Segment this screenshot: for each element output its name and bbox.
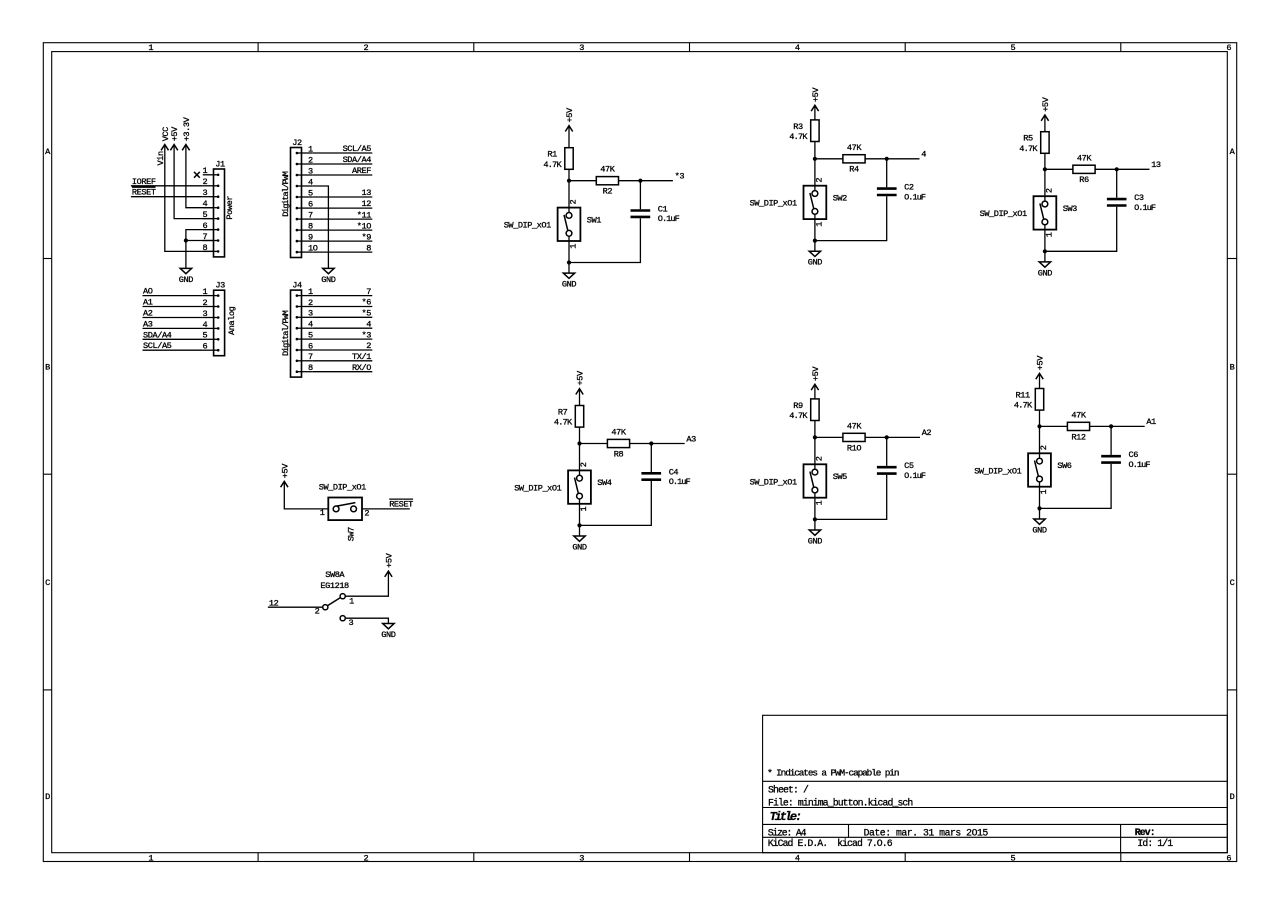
switch SW5 SW_DIP_x01 (750, 456, 848, 505)
svg-text:+5V: +5V (811, 366, 821, 381)
wire +5V to R9 (814, 384, 816, 399)
svg-text:SW_DIP_xO1: SW_DIP_xO1 (750, 477, 797, 487)
svg-text:SW2: SW2 (833, 194, 847, 204)
svg-text:KiCad E.D.A. kicad 7.O.6: KiCad E.D.A. kicad 7.O.6 (768, 838, 893, 849)
svg-text:A1: A1 (1146, 417, 1156, 427)
ground GND (SW2 circuit) (814, 241, 816, 252)
wire J1 pin 7 to ground rail (186, 240, 214, 242)
wire J4 pin 8 net (312, 371, 372, 373)
svg-text:C4: C4 (669, 467, 679, 477)
wire node to R12 (1040, 425, 1068, 427)
svg-text:SW_DIP_xO1: SW_DIP_xO1 (750, 199, 797, 209)
wire node to R2 (569, 180, 596, 182)
ground GND (J2) (321, 268, 335, 285)
wire node to C6 (1110, 426, 1112, 455)
junction ground node (SW4) (577, 523, 581, 527)
svg-text:2: 2 (364, 853, 369, 863)
wire J4 pin 7 net (312, 360, 372, 362)
wire C4 to ground node (580, 481, 652, 525)
resistor R12 47K (1067, 410, 1089, 442)
svg-text:GND: GND (1038, 268, 1052, 278)
svg-text:7: 7 (366, 287, 371, 297)
connector J2 (Digital/PWM) (281, 138, 318, 258)
wire J3 pin 5 net (143, 338, 203, 340)
svg-text:2: 2 (366, 341, 371, 351)
wire R8 to node (630, 443, 652, 445)
svg-text:SW8A: SW8A (325, 570, 345, 580)
junction C6 top node (1109, 424, 1113, 428)
svg-text:R8: R8 (614, 449, 624, 459)
svg-text:GND: GND (179, 275, 193, 285)
svg-text:RX/O: RX/O (352, 363, 371, 373)
wire J2 pin 7 net (312, 218, 372, 220)
svg-text:47K: 47K (847, 421, 862, 431)
wire R11 to SW6 pin 2 (1039, 410, 1041, 458)
svg-text:GND: GND (808, 537, 822, 547)
svg-text:3: 3 (349, 618, 354, 628)
svg-text:Size: A4: Size: A4 (768, 827, 807, 838)
svg-text:O.1uF: O.1uF (1134, 203, 1156, 213)
svg-text:R6: R6 (1079, 175, 1089, 185)
switch SW8A EG1218 (315, 570, 354, 628)
junction R3/R4 node (813, 157, 817, 161)
wire J2 pin 8 net (312, 229, 372, 231)
svg-text:2: 2 (1045, 188, 1055, 193)
svg-text:13: 13 (1151, 160, 1161, 170)
wire J2 pin 5 net (312, 196, 372, 198)
svg-text:1: 1 (569, 244, 579, 249)
wire C3 to ground node (1045, 207, 1117, 252)
wire node to net 4 (887, 158, 920, 160)
svg-text:SW_DIP_xO1: SW_DIP_xO1 (504, 221, 551, 231)
wire node to C3 (1116, 169, 1118, 198)
svg-text:4: 4 (203, 320, 208, 330)
wire J2 pin 10 net (312, 251, 372, 253)
switch SW2 SW_DIP_x01 (750, 178, 848, 227)
svg-text:1: 1 (1045, 232, 1055, 237)
svg-text:13: 13 (362, 188, 372, 198)
resistor R9 4.7K (789, 399, 819, 421)
power symbol +5V (SW3 circuit) (1041, 96, 1051, 120)
svg-text:SDA/A4: SDA/A4 (343, 155, 372, 165)
wire node to C4 (650, 444, 652, 473)
svg-text:Title:: Title: (770, 810, 802, 824)
wire R12 to node (1090, 425, 1112, 427)
svg-text:*9: *9 (362, 232, 372, 242)
svg-text:Power: Power (225, 196, 235, 220)
svg-text:*1O: *1O (357, 221, 371, 231)
junction R9/R10 node (813, 435, 817, 439)
svg-text:2: 2 (579, 462, 589, 467)
wire J4 pin 6 net (312, 349, 372, 351)
svg-text:2: 2 (315, 607, 320, 617)
wire node to R4 (815, 158, 843, 160)
wire R2 to node (619, 180, 641, 182)
svg-text:47K: 47K (1071, 410, 1086, 420)
power symbol +5V (SW7 circuit) (280, 463, 290, 487)
resistor R4 47K (843, 143, 865, 175)
svg-text:1: 1 (815, 222, 825, 227)
svg-text:*3: *3 (362, 330, 372, 340)
svg-text:2: 2 (815, 178, 825, 183)
svg-text:47K: 47K (600, 165, 615, 175)
svg-text:+5V: +5V (280, 463, 290, 478)
svg-text:R4: R4 (849, 165, 859, 175)
wire J3 pin 1 net (143, 295, 203, 297)
svg-text:R9: R9 (793, 401, 803, 411)
wire R7 to SW4 pin 2 (579, 427, 581, 475)
svg-text:A2: A2 (922, 428, 932, 438)
wire J1 pin 6 to ground rail (186, 230, 214, 269)
svg-text:SW1: SW1 (587, 215, 601, 225)
wire R1 to SW1 pin 2 (568, 169, 570, 212)
junction ground node (SW1) (567, 260, 571, 264)
junction R5/R6 node (1043, 167, 1047, 171)
ground GND (SW6 circuit) (1039, 508, 1041, 519)
wire J2 pin 6 net (312, 207, 372, 209)
junction ground node (SW6) (1037, 506, 1041, 510)
wire SW1 pin 1 to ground node (568, 236, 570, 262)
svg-text:GND: GND (321, 275, 335, 285)
wire J2 pin 1 net (312, 152, 372, 154)
junction C5 top node (885, 435, 889, 439)
capacitor C1 0.1uF (631, 205, 680, 225)
power symbol +5V (SW8A) (384, 552, 394, 576)
ground GND (SW1 circuit) (568, 263, 570, 274)
svg-text:+5V: +5V (1036, 355, 1046, 370)
wire J4 pin 1 net (312, 295, 372, 297)
svg-text:D: D (1230, 792, 1235, 802)
wire node to C2 (886, 159, 888, 188)
junction ground node (SW3) (1043, 249, 1047, 253)
resistor R10 47K (843, 421, 865, 453)
wire R3 to SW2 pin 2 (814, 142, 816, 191)
svg-text:J3: J3 (215, 281, 225, 291)
svg-text:Digital/PWM: Digital/PWM (281, 310, 291, 356)
svg-text:SW_DIP_xO1: SW_DIP_xO1 (980, 209, 1027, 219)
svg-text:B: B (45, 362, 50, 372)
svg-text:4.7K: 4.7K (554, 418, 573, 428)
svg-text:2: 2 (203, 298, 208, 308)
svg-text:A3: A3 (143, 319, 153, 329)
svg-text:3: 3 (203, 309, 208, 319)
svg-text:J2: J2 (292, 138, 302, 148)
junction C1 top node (638, 179, 642, 183)
svg-text:R1: R1 (547, 150, 557, 160)
svg-text:C1: C1 (658, 205, 668, 215)
svg-text:47K: 47K (847, 143, 862, 153)
svg-text:4.7K: 4.7K (543, 160, 562, 170)
wire net 12 to SW8A pin 2 (268, 606, 323, 608)
wire +3.3V to J1 pin 4 (186, 145, 214, 208)
svg-text:Analog: Analog (227, 306, 237, 335)
svg-text:J4: J4 (292, 281, 302, 291)
wire R9 to SW5 pin 2 (814, 421, 816, 470)
svg-text:4.7K: 4.7K (789, 132, 808, 142)
no-connect X on J1 pin 1 (194, 172, 200, 178)
svg-text:1: 1 (148, 853, 153, 863)
svg-text:R2: R2 (603, 187, 613, 197)
svg-text:1: 1 (203, 287, 208, 297)
svg-text:5: 5 (203, 331, 208, 341)
wire node to R10 (815, 436, 843, 438)
junction ground node (SW2) (813, 239, 817, 243)
svg-text:3: 3 (579, 853, 584, 863)
junction R1/R2 node (567, 179, 571, 183)
svg-text:A2: A2 (143, 309, 153, 319)
wire R4 to node (865, 158, 887, 160)
wire node to net 13 (1117, 168, 1150, 170)
wire R6 to node (1095, 168, 1117, 170)
wire J2 pin 4 to GND (312, 186, 328, 268)
svg-text:D: D (45, 792, 50, 802)
svg-text:SW6: SW6 (1057, 461, 1071, 471)
connector J1 (Power) (202, 160, 235, 257)
resistor R2 47K (596, 165, 618, 197)
power symbol +5V (SW1 circuit) (565, 107, 575, 131)
junction R7/R8 node (577, 441, 581, 445)
wire node to net A3 (651, 443, 684, 445)
svg-text:File: minima_button.kicad_sch: File: minima_button.kicad_sch (768, 797, 913, 808)
svg-text:GND: GND (1032, 526, 1046, 536)
svg-text:A1: A1 (143, 298, 153, 308)
svg-text:5: 5 (1011, 853, 1016, 863)
svg-text:4.7K: 4.7K (1019, 144, 1038, 154)
svg-text:R11: R11 (1015, 391, 1029, 401)
wire J4 pin 5 net (312, 338, 372, 340)
svg-text:1: 1 (349, 596, 354, 606)
wire +5V to J1 pin 5 (174, 145, 213, 219)
svg-text:O.1uF: O.1uF (1129, 460, 1151, 470)
svg-text:+5V: +5V (811, 87, 821, 102)
svg-text:47K: 47K (611, 428, 626, 438)
svg-text:2: 2 (569, 200, 579, 205)
svg-text:TX/1: TX/1 (352, 352, 371, 362)
power symbol +5V (SW4 circuit) (576, 370, 586, 394)
svg-text:C6: C6 (1129, 450, 1139, 460)
capacitor C3 0.1uF (1107, 193, 1156, 213)
svg-text:C3: C3 (1134, 193, 1144, 203)
svg-text:EG1218: EG1218 (320, 581, 349, 591)
svg-text:* Indicates a PWM-capable pin: * Indicates a PWM-capable pin (767, 767, 899, 778)
net RESET label (active low) (132, 187, 156, 198)
wire node to net *3 (640, 180, 673, 182)
svg-text:SW_DIP_xO1: SW_DIP_xO1 (319, 482, 366, 492)
svg-text:SCL/A5: SCL/A5 (343, 144, 372, 154)
svg-text:C: C (45, 578, 50, 588)
svg-text:+5V: +5V (565, 107, 575, 122)
svg-text:1: 1 (202, 166, 207, 176)
svg-text:6: 6 (1226, 853, 1231, 863)
svg-text:1: 1 (148, 43, 153, 53)
svg-text:*6: *6 (362, 298, 372, 308)
svg-text:SW3: SW3 (1063, 204, 1077, 214)
resistor R8 47K (607, 428, 629, 460)
junction R11/R12 node (1037, 424, 1041, 428)
svg-text:R12: R12 (1071, 432, 1085, 442)
wire J3 pin 3 net (143, 317, 203, 319)
resistor R1 4.7K (543, 148, 573, 170)
ground GND (SW4 circuit) (579, 525, 581, 536)
switch SW6 SW_DIP_x01 (974, 445, 1072, 494)
wire VCC/Vin to J1 pin 8 (165, 145, 214, 252)
wire node to C5 (886, 437, 888, 466)
wire node to R6 (1045, 168, 1073, 170)
wire RESET to J1 pin 3 (131, 196, 203, 198)
svg-text:B: B (1230, 362, 1235, 372)
title block (763, 715, 1228, 852)
wire SW8A pin 3 to GND (345, 618, 388, 623)
wire J2 pin 3 net (312, 174, 372, 176)
svg-text:A3: A3 (686, 434, 696, 444)
net RESET label (SW7, active low) (389, 499, 413, 510)
power symbol +3.3V (182, 116, 192, 150)
resistor R7 4.7K (554, 406, 584, 428)
wire R5 to SW3 pin 2 (1044, 153, 1046, 201)
wire J4 pin 2 net (312, 306, 372, 308)
svg-text:+3.3V: +3.3V (182, 116, 192, 141)
wire +5V to R7 (579, 389, 581, 406)
wire SW5 pin 1 to ground node (814, 493, 816, 520)
switch SW3 SW_DIP_x01 (980, 188, 1078, 237)
svg-text:1: 1 (320, 508, 325, 518)
power symbol +5V (SW5 circuit) (811, 366, 821, 390)
wire +5V to R3 (814, 105, 816, 120)
switch SW1 SW_DIP_x01 (504, 200, 602, 249)
svg-text:4: 4 (795, 853, 800, 863)
svg-text:*3: *3 (675, 172, 685, 182)
svg-text:GND: GND (808, 258, 822, 268)
connector J4 (Digital/PWM) (281, 281, 313, 378)
svg-text:AREF: AREF (352, 166, 371, 176)
wire +5V to SW7 pin 1 (284, 481, 328, 509)
svg-text:1: 1 (579, 507, 589, 512)
wire SW8A pin 1 to +5V (345, 571, 388, 596)
wire +5V to R5 (1044, 115, 1046, 132)
wire J2 pin 9 net (312, 240, 372, 242)
switch SW4 SW_DIP_x01 (514, 462, 612, 511)
svg-text:SCL/A5: SCL/A5 (143, 341, 172, 351)
svg-text:2: 2 (364, 43, 369, 53)
capacitor C2 0.1uF (877, 183, 926, 203)
resistor R6 47K (1073, 153, 1095, 185)
svg-text:6: 6 (1226, 43, 1231, 53)
junction C2 top node (885, 157, 889, 161)
svg-text:AO: AO (143, 287, 153, 297)
svg-text:R3: R3 (793, 122, 803, 132)
wire node to net A2 (887, 436, 920, 438)
svg-text:4.7K: 4.7K (1014, 401, 1033, 411)
wire J3 pin 6 net (143, 349, 203, 351)
ground GND (SW5 circuit) (814, 519, 816, 530)
svg-text:C: C (1230, 578, 1235, 588)
svg-text:Sheet: /: Sheet: / (768, 785, 809, 796)
wire C6 to ground node (1040, 464, 1112, 509)
junction C3 top node (1115, 167, 1119, 171)
wire node to net A1 (1111, 425, 1145, 427)
capacitor C6 0.1uF (1101, 450, 1150, 470)
svg-text:O.1uF: O.1uF (904, 471, 926, 481)
svg-text:*11: *11 (357, 210, 371, 220)
svg-text:6: 6 (203, 342, 208, 352)
svg-text:O.1uF: O.1uF (658, 214, 680, 224)
wire SW6 pin 1 to ground node (1039, 482, 1041, 509)
svg-text:2: 2 (364, 509, 369, 519)
svg-text:+5V: +5V (384, 552, 394, 567)
junction ground node (SW5) (813, 517, 817, 521)
svg-text:1: 1 (1039, 489, 1049, 494)
svg-text:SW7: SW7 (347, 527, 357, 541)
wire C1 to ground node (569, 218, 640, 262)
power symbol +5V (SW2 circuit) (811, 87, 821, 111)
wire J3 pin 2 net (143, 306, 203, 308)
wire +5V to R1 (568, 126, 570, 148)
svg-text:47K: 47K (1077, 153, 1092, 163)
svg-text:Digital/PWM: Digital/PWM (281, 171, 291, 217)
connector J3 (Analog) (203, 281, 237, 356)
svg-text:Id: 1/1: Id: 1/1 (1137, 838, 1173, 849)
svg-text:3: 3 (579, 43, 584, 53)
wire J3 pin 4 net (143, 327, 203, 329)
svg-text:SW4: SW4 (597, 478, 611, 488)
ground GND (SW8A) (381, 624, 395, 641)
svg-text:2: 2 (202, 177, 207, 187)
svg-text:3: 3 (202, 188, 207, 198)
svg-text:2: 2 (815, 456, 825, 461)
capacitor C4 0.1uF (641, 467, 690, 487)
svg-text:R5: R5 (1023, 134, 1033, 144)
svg-text:GND: GND (562, 280, 576, 290)
svg-text:Rev:: Rev: (1135, 827, 1155, 838)
power symbol +5V (SW6 circuit) (1036, 355, 1046, 379)
svg-text:GND: GND (381, 630, 395, 640)
svg-text:SW_DIP_xO1: SW_DIP_xO1 (514, 483, 561, 493)
svg-text:+5V: +5V (1041, 96, 1051, 111)
svg-text:SW5: SW5 (833, 472, 847, 482)
svg-text:2: 2 (1039, 445, 1049, 450)
wire J4 pin 4 net (312, 327, 372, 329)
wire SW2 pin 1 to ground node (814, 214, 816, 240)
svg-text:R1O: R1O (847, 443, 861, 453)
svg-text:J1: J1 (215, 160, 225, 170)
svg-text:4: 4 (366, 319, 371, 329)
svg-text:4.7K: 4.7K (789, 411, 808, 421)
wire IOREF to J1 pin 2 (131, 185, 203, 187)
wire C2 to ground node (815, 196, 887, 240)
svg-text:*5: *5 (362, 309, 372, 319)
svg-text:5: 5 (1011, 43, 1016, 53)
wire +5V to R11 (1039, 373, 1041, 388)
wire SW4 pin 1 to ground node (579, 499, 581, 525)
svg-text:8: 8 (366, 243, 371, 253)
svg-text:+5V: +5V (170, 126, 180, 141)
svg-text:GND: GND (572, 543, 586, 553)
svg-text:4: 4 (795, 43, 800, 53)
power symbol VCC (161, 127, 171, 150)
svg-text:+5V: +5V (576, 370, 586, 385)
wire SW3 pin 1 to ground node (1044, 225, 1046, 252)
switch SW7 SW_DIP_x01 (horizontal) (319, 482, 370, 541)
svg-text:RESET: RESET (389, 500, 413, 510)
wire SW7 pin 2 to net RESET (362, 508, 410, 510)
power symbol +5V (J1) (170, 126, 180, 150)
wire C5 to ground node (815, 475, 887, 520)
wire J4 pin 3 net (312, 316, 372, 318)
svg-text:C2: C2 (904, 183, 914, 193)
svg-text:R7: R7 (558, 408, 568, 418)
svg-text:SDA/A4: SDA/A4 (143, 330, 172, 340)
wire R10 to node (865, 436, 887, 438)
